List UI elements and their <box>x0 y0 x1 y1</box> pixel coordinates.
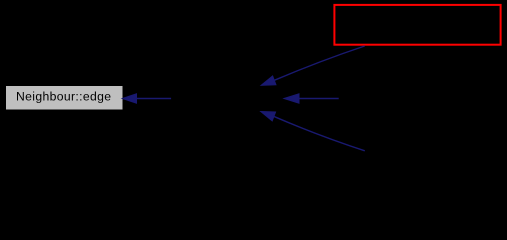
wire edge from bottom-right node to center node <box>261 112 365 151</box>
svg-text:Neighbour::edge: Neighbour::edge <box>16 90 111 104</box>
wire edge from red node to center node <box>261 46 365 85</box>
node Neighbour::edge (current node, grey filled) <box>6 86 123 110</box>
wire edge horizontal from right node to center node <box>284 94 339 103</box>
node red (truncated node, red border) <box>334 5 500 45</box>
wire edge from center node to Neighbour::edge <box>122 94 171 103</box>
